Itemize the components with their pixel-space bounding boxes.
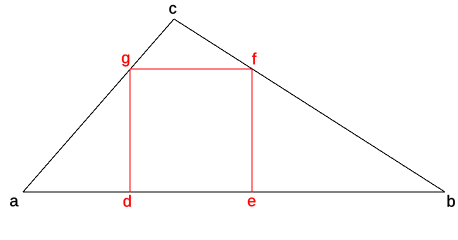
wire: square top g-f — [130, 68, 252, 70]
node g label — [122, 55, 129, 67]
node e label — [248, 198, 256, 207]
node d label — [124, 195, 131, 207]
wire: square right side f-e — [251, 69, 253, 193]
wire: square left side g-d — [129, 69, 131, 193]
wire: triangle side a-c — [23, 19, 174, 192]
wire: triangle base a-b — [23, 191, 445, 193]
node c label — [169, 5, 176, 14]
node f label — [252, 53, 256, 65]
node a label — [10, 198, 18, 207]
node b label — [448, 195, 455, 207]
wire: triangle side c-b — [174, 19, 445, 192]
